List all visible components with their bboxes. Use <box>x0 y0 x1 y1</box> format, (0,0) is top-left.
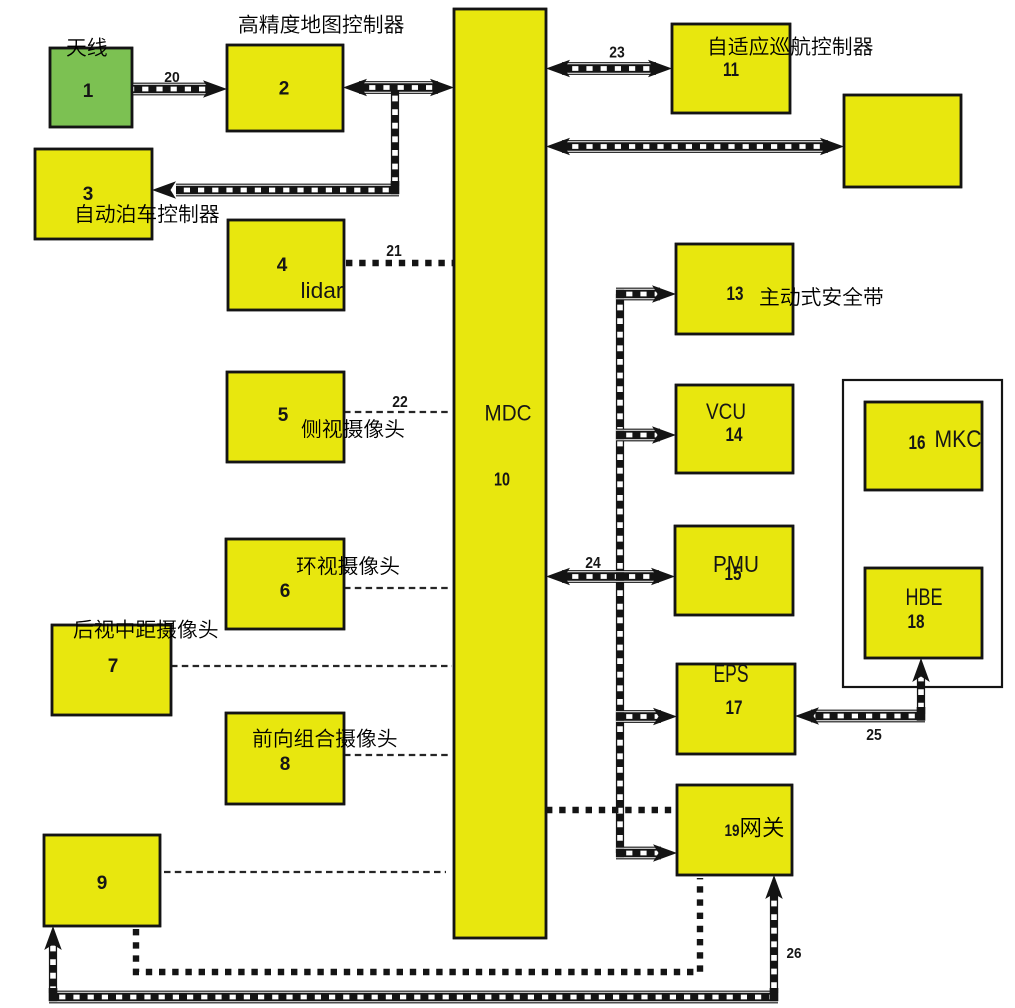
svg-text:6: 6 <box>280 581 291 602</box>
svg-text:21: 21 <box>386 243 402 260</box>
svg-text:16: 16 <box>909 433 926 454</box>
svg-text:MKC: MKC <box>935 426 982 453</box>
svg-text:14: 14 <box>726 425 743 446</box>
svg-text:7: 7 <box>108 656 119 677</box>
svg-text:22: 22 <box>392 394 408 411</box>
svg-text:18: 18 <box>908 612 925 633</box>
svg-text:26: 26 <box>787 945 802 962</box>
svg-text:20: 20 <box>164 69 180 86</box>
svg-text:11: 11 <box>723 60 739 81</box>
svg-text:24: 24 <box>585 555 601 572</box>
svg-text:4: 4 <box>277 255 288 276</box>
svg-text:9: 9 <box>97 873 108 894</box>
svg-text:8: 8 <box>280 754 291 775</box>
svg-text:23: 23 <box>609 45 625 62</box>
svg-text:25: 25 <box>866 727 882 744</box>
svg-text:10: 10 <box>494 470 510 490</box>
svg-text:17: 17 <box>726 698 743 719</box>
svg-text:MDC: MDC <box>485 401 532 426</box>
svg-text:19: 19 <box>725 821 740 840</box>
svg-text:PMU: PMU <box>713 551 759 577</box>
svg-text:5: 5 <box>278 405 289 426</box>
svg-text:13: 13 <box>727 284 744 305</box>
svg-text:2: 2 <box>279 79 290 100</box>
svg-text:lidar: lidar <box>301 278 344 303</box>
svg-text:EPS: EPS <box>714 660 749 688</box>
svg-text:3: 3 <box>83 184 94 205</box>
svg-text:1: 1 <box>83 81 94 102</box>
svg-text:HBE: HBE <box>906 584 943 611</box>
svg-text:VCU: VCU <box>706 399 746 424</box>
